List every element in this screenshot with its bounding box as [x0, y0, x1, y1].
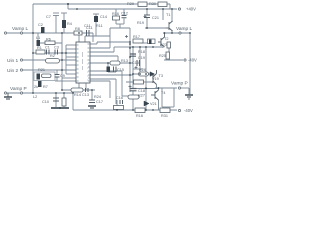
svg-text:C1: C1: [45, 46, 50, 50]
svg-text:C17: C17: [96, 100, 103, 104]
svg-text:R2: R2: [50, 54, 55, 58]
svg-text:R14 C13: R14 C13: [74, 93, 89, 97]
svg-text:R16: R16: [136, 114, 143, 118]
svg-text:C15: C15: [117, 68, 124, 72]
svg-text:C18: C18: [138, 89, 145, 93]
svg-text:R1: R1: [37, 46, 42, 50]
svg-text:C11: C11: [86, 26, 93, 30]
svg-text:-40V: -40V: [188, 58, 197, 63]
svg-text:R21: R21: [38, 68, 45, 72]
svg-text:R18: R18: [138, 50, 145, 54]
svg-text:R30: R30: [149, 2, 156, 6]
svg-text:-40V: -40V: [184, 108, 193, 113]
svg-text:C7: C7: [46, 15, 51, 19]
svg-text:R24: R24: [94, 95, 101, 99]
svg-text:C9: C9: [60, 74, 65, 78]
svg-text:R8: R8: [75, 27, 80, 31]
svg-text:Vamp L: Vamp L: [176, 26, 193, 32]
svg-text:Vamp L: Vamp L: [12, 26, 29, 32]
svg-text:Vamp P: Vamp P: [171, 81, 188, 87]
svg-text:L1: L1: [36, 36, 40, 40]
svg-text:R25: R25: [159, 54, 166, 58]
svg-text:C19: C19: [138, 56, 145, 60]
svg-text:T3: T3: [159, 74, 163, 78]
svg-text:C2: C2: [38, 23, 43, 27]
svg-text:R19: R19: [137, 21, 144, 25]
svg-text:C3: C3: [54, 46, 59, 50]
svg-text:R7: R7: [43, 85, 48, 89]
svg-text:Uin 2: Uin 2: [7, 68, 19, 74]
svg-text:R6: R6: [46, 38, 51, 42]
svg-text:Uin 1: Uin 1: [7, 58, 19, 64]
svg-text:R11: R11: [96, 24, 103, 28]
svg-text:R29: R29: [127, 2, 134, 6]
svg-text:L2: L2: [33, 95, 37, 99]
svg-text:C21: C21: [152, 16, 159, 20]
svg-text:C15: C15: [132, 61, 139, 65]
svg-text:2k: 2k: [34, 85, 38, 89]
svg-text:R13: R13: [121, 59, 128, 63]
svg-text:T1: T1: [166, 13, 170, 17]
svg-text:T4: T4: [161, 91, 165, 95]
svg-text:R23: R23: [160, 43, 167, 47]
svg-text:R31: R31: [161, 114, 168, 118]
svg-text:C14: C14: [100, 15, 107, 19]
svg-text:C16: C16: [116, 96, 123, 100]
svg-text:R26: R26: [139, 68, 146, 72]
svg-text:Vamp P: Vamp P: [10, 86, 27, 92]
svg-text:R17: R17: [133, 35, 140, 39]
svg-text:R16: R16: [112, 12, 119, 16]
svg-text:+40V: +40V: [186, 7, 196, 12]
svg-text:C12: C12: [121, 12, 128, 16]
svg-text:V21: V21: [150, 102, 157, 106]
svg-text:R27: R27: [138, 94, 145, 98]
svg-text:C10: C10: [42, 100, 49, 104]
svg-text:R4: R4: [67, 22, 72, 26]
svg-text:T2: T2: [164, 37, 168, 41]
svg-text:V19: V19: [152, 77, 159, 81]
